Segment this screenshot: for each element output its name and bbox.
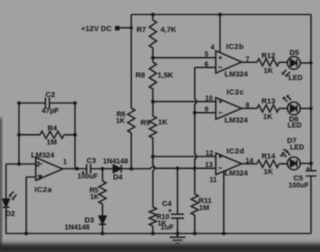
LED D6 bbox=[283, 95, 311, 115]
op-amp U IC2a bbox=[36, 158, 63, 181]
resistor R12 bbox=[257, 59, 287, 66]
svg-text:3: 3 bbox=[37, 175, 41, 182]
resistor R7 bbox=[149, 15, 156, 58]
svg-text:D2: D2 bbox=[6, 209, 16, 218]
wire comparator input line bbox=[195, 67, 197, 194]
svg-text:R8: R8 bbox=[136, 71, 146, 80]
svg-text:+12V DC: +12V DC bbox=[81, 24, 112, 33]
svg-text:5: 5 bbox=[205, 52, 209, 59]
svg-text:2: 2 bbox=[36, 162, 40, 169]
diode D3 bbox=[99, 216, 106, 234]
svg-text:11: 11 bbox=[210, 177, 218, 184]
node feedback R4 left bbox=[17, 133, 21, 137]
node rail D5 bbox=[309, 61, 312, 64]
resistor R4 bbox=[19, 131, 75, 138]
svg-text:LED: LED bbox=[290, 145, 304, 152]
node pin9 junction bbox=[193, 111, 197, 115]
svg-text:LM324: LM324 bbox=[225, 70, 249, 79]
LED D5 bbox=[282, 57, 311, 77]
wire IC2d pin11 power bbox=[223, 171, 225, 233]
node C4 tap bbox=[176, 167, 180, 171]
node rail D6 bbox=[309, 107, 312, 110]
svg-text:LED: LED bbox=[288, 123, 302, 130]
wire IC2b output pin7 bbox=[242, 61, 257, 63]
node rail D3 bbox=[101, 232, 105, 236]
wire IC2b pin4 power bbox=[219, 15, 221, 53]
svg-text:12: 12 bbox=[206, 151, 214, 158]
op-amp U IC2b bbox=[216, 51, 242, 73]
wire IC2a output bbox=[63, 168, 87, 170]
node R5 tap bbox=[101, 167, 105, 171]
wire +12V feed bbox=[118, 27, 131, 29]
photo dark bottom band bbox=[0, 241, 320, 252]
node feedback C2 left bbox=[17, 101, 21, 105]
LED D7 bbox=[280, 150, 311, 170]
node rail pin11 bbox=[222, 232, 226, 236]
svg-text:1K: 1K bbox=[90, 194, 99, 201]
svg-text:LM324: LM324 bbox=[225, 116, 249, 125]
node divider tap3 bbox=[151, 155, 155, 159]
svg-text:1K: 1K bbox=[158, 118, 168, 127]
node output IC2a bbox=[75, 167, 79, 171]
svg-text:R7: R7 bbox=[137, 25, 147, 34]
resistor R8 bbox=[149, 58, 156, 102]
node signal input line bbox=[193, 167, 197, 171]
svg-text:LM324: LM324 bbox=[31, 151, 55, 160]
node pin2 feedback bbox=[17, 162, 21, 166]
wire IC2b pin5 from divider tap bbox=[153, 57, 216, 59]
svg-text:1N4148: 1N4148 bbox=[103, 157, 128, 166]
node rail C4 bbox=[176, 232, 180, 236]
svg-text:1K: 1K bbox=[116, 118, 125, 125]
wire right rail lower bbox=[310, 176, 312, 234]
svg-text:IC2c: IC2c bbox=[227, 88, 245, 97]
svg-text:14: 14 bbox=[246, 158, 254, 165]
svg-text:1K: 1K bbox=[264, 167, 274, 176]
wire feedback left vertical bbox=[18, 103, 20, 164]
svg-text:+: + bbox=[306, 166, 310, 173]
photodiode D2 bbox=[3, 164, 17, 234]
wire IC2c pin9 bbox=[195, 112, 216, 114]
wire IC2b pin6 bbox=[195, 66, 216, 68]
resistor R14 bbox=[257, 160, 287, 167]
node rail D7 bbox=[309, 162, 313, 166]
node rail pin3 gnd bbox=[24, 232, 28, 236]
svg-text:D4: D4 bbox=[113, 173, 123, 182]
node D4 R6 junction bbox=[130, 167, 134, 171]
wire IC2d output pin14 bbox=[242, 163, 257, 165]
wire signal node to comparators bbox=[131, 167, 216, 169]
photo dark left edge bbox=[0, 118, 2, 252]
svg-text:R14: R14 bbox=[262, 152, 277, 161]
wire top +12V rail bbox=[131, 14, 311, 16]
resistor R6 bbox=[128, 108, 135, 133]
svg-text:D5: D5 bbox=[290, 48, 300, 57]
svg-text:9: 9 bbox=[205, 107, 209, 114]
svg-text:47pF: 47pF bbox=[42, 106, 60, 115]
node feedback R4 right bbox=[73, 133, 77, 137]
terminal +12V DC bbox=[115, 26, 120, 30]
svg-text:LM324: LM324 bbox=[225, 169, 249, 178]
resistor R5 bbox=[99, 169, 106, 216]
node pin4 rail bbox=[218, 13, 222, 17]
svg-text:8: 8 bbox=[246, 103, 250, 110]
capacitor C5 bbox=[306, 171, 317, 176]
wire feedback right vertical bbox=[74, 103, 76, 169]
node feedback C2 right bbox=[73, 101, 77, 105]
capacitor C4 bbox=[171, 168, 184, 233]
resistor R11 bbox=[191, 194, 198, 234]
svg-text:4: 4 bbox=[211, 45, 215, 52]
ground bbox=[170, 234, 186, 244]
node R7 top rail bbox=[151, 13, 155, 17]
capacitor C3 bbox=[87, 164, 114, 174]
svg-text:IC2d: IC2d bbox=[227, 147, 245, 156]
svg-text:C3: C3 bbox=[87, 156, 97, 165]
wire IC2c output pin8 bbox=[242, 107, 257, 109]
svg-text:1M: 1M bbox=[47, 138, 57, 147]
resistor R9 bbox=[149, 102, 156, 157]
svg-text:1M: 1M bbox=[199, 203, 209, 212]
diode D4 bbox=[113, 165, 131, 173]
svg-text:C4: C4 bbox=[162, 199, 172, 208]
svg-text:C2: C2 bbox=[46, 90, 56, 99]
svg-text:IC2b: IC2b bbox=[226, 42, 244, 51]
capacitor C2 bbox=[19, 98, 75, 109]
svg-text:R12: R12 bbox=[262, 51, 276, 60]
wire divider column with hop over signal wire bbox=[153, 157, 155, 208]
op-amp U IC2d bbox=[216, 153, 242, 175]
wire left rail branch R6 column bbox=[130, 15, 132, 169]
svg-text:LED: LED bbox=[289, 75, 303, 82]
svg-text:1,5K: 1,5K bbox=[158, 71, 174, 80]
node divider tap2 bbox=[151, 100, 155, 104]
svg-text:100uF: 100uF bbox=[78, 174, 99, 181]
svg-text:13: 13 bbox=[205, 162, 213, 169]
svg-text:1: 1 bbox=[63, 159, 67, 166]
svg-text:C5: C5 bbox=[294, 174, 304, 183]
svg-text:1K: 1K bbox=[263, 112, 273, 121]
svg-text:R9: R9 bbox=[141, 118, 151, 127]
node rail R11 bbox=[193, 232, 197, 236]
svg-text:1uF: 1uF bbox=[161, 223, 175, 232]
svg-text:100uF: 100uF bbox=[289, 183, 310, 190]
svg-text:6: 6 bbox=[205, 62, 209, 69]
svg-text:10: 10 bbox=[205, 96, 213, 103]
svg-text:R4: R4 bbox=[48, 124, 58, 133]
wire bottom ground rail bbox=[6, 233, 311, 235]
svg-text:1N4148: 1N4148 bbox=[65, 223, 90, 232]
node rail R10 bbox=[151, 232, 155, 236]
svg-text:4,7K: 4,7K bbox=[161, 25, 177, 34]
svg-text:+: + bbox=[168, 208, 172, 215]
svg-text:7: 7 bbox=[246, 57, 250, 64]
node divider tap1 bbox=[151, 56, 155, 60]
svg-text:IC2a: IC2a bbox=[35, 185, 53, 194]
resistor R13 bbox=[257, 105, 287, 112]
op-amp U IC2c bbox=[216, 98, 242, 120]
svg-text:R13: R13 bbox=[262, 97, 276, 106]
node +12V tee bbox=[130, 26, 133, 29]
svg-text:1K: 1K bbox=[264, 66, 274, 75]
wire right rail upper bbox=[310, 15, 312, 171]
wire IC2a pin2 input bbox=[6, 163, 36, 165]
wire IC2c pin10 from divider tap bbox=[153, 101, 216, 103]
wire IC2a pin3 to ground bbox=[26, 177, 36, 234]
resistor R10 bbox=[149, 207, 156, 234]
wire IC2d pin12 from divider tap bbox=[153, 156, 216, 158]
